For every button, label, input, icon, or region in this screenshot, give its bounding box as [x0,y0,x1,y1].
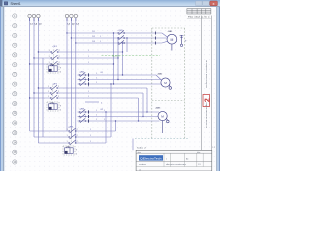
svg-text:1: 1 [67,141,68,143]
terminal L2 group1 [32,14,36,18]
wire rung2 right [58,57,119,59]
svg-text:1.2: 1.2 [212,147,215,149]
node row-14 [13,140,17,144]
wire rung4 right [57,87,147,89]
svg-text:1: 1 [104,110,105,112]
svg-text:1: 1 [100,41,101,43]
svg-text:1: 1 [90,141,91,143]
svg-text:1L3: 1L3 [92,41,95,43]
node row-15 [13,150,17,154]
svg-text:1/1: 1/1 [198,164,201,166]
dashed partition [152,100,185,102]
svg-text:9: 9 [60,68,61,70]
svg-text:5: 5 [60,110,61,112]
svg-text:1: 1 [48,86,49,88]
wire rung y131 right [76,130,116,132]
svg-text:-FR1: -FR1 [50,64,54,66]
earth symbol motor2 [169,87,172,90]
svg-text:-X1: -X1 [100,72,103,74]
svg-text:x: x [213,1,215,6]
wire vertical L1 [29,18,31,131]
node row-8 [13,82,17,86]
terminal L3 group2 [74,14,78,18]
svg-text:1: 1 [96,110,97,112]
svg-text:1: 1 [96,73,97,75]
wire drop b [117,38,119,80]
wire vertical L1b [66,18,68,131]
svg-text:1: 1 [96,82,97,84]
node row-4 [13,43,17,47]
svg-text:autor: autor [139,163,147,166]
svg-text:1: 1 [96,78,97,80]
svg-text:QElectroTech: QElectroTech [140,157,162,161]
contactor QM1 [119,30,125,34]
wire motor3 tail [162,121,164,133]
svg-text:1: 1 [48,96,49,98]
svg-text:1: 1 [166,159,167,161]
node row-10 [13,102,17,106]
window icon [4,2,7,5]
node row-9 [13,92,17,96]
svg-text:M: M [170,38,173,42]
terminal L1 group2 [65,14,69,18]
wire stub [85,101,99,103]
wire rung3 right [58,63,114,65]
node row-13 [13,131,17,135]
svg-text:1: 1 [104,119,105,121]
svg-text:1: 1 [48,91,49,93]
wire vertical L2 [33,18,35,137]
thermal relay FR1 [47,64,59,73]
wire motor2 row1 [78,74,157,76]
wire drop to title block [132,139,134,151]
svg-text:5: 5 [60,72,61,74]
terminal L2 group2 [70,14,74,18]
svg-text:9: 9 [60,106,61,108]
thermal relay FR2 [47,102,59,111]
svg-text:1: 1 [49,56,50,58]
wire rise b [110,84,112,137]
svg-text:1: 1 [100,36,101,38]
motor M1 [167,34,177,44]
wire rung y93 [34,92,51,94]
wire rise c [105,112,107,143]
wire converge m2 [156,75,161,80]
dashed enclosure box [152,27,185,29]
terminal L1 group1 [28,14,32,18]
svg-text:-QF1: -QF1 [52,46,58,48]
svg-text:1: 1 [88,62,89,64]
thermal relay FR3 [63,146,75,155]
svg-text:-MA3: -MA3 [155,107,161,110]
svg-text:-QF3: -QF3 [68,126,74,128]
svg-text:commande: commande [206,100,208,128]
wire rung y58 [34,57,52,59]
svg-text:1: 1 [96,119,97,121]
wire rung y88 [38,87,51,89]
wire vertical L3 [37,18,39,143]
dashed separator bottom [135,138,188,140]
red stamp [203,95,210,107]
wire motor3 row2 [78,116,159,118]
node row-7 [13,72,17,76]
svg-text:v1: v1 [139,169,141,171]
wire rung y137 [34,136,70,138]
svg-text:1L2: 1L2 [92,36,95,38]
wire rung y131 [30,130,70,132]
node row-1 [13,14,17,18]
svg-text:M: M [164,81,167,85]
svg-text:1: 1 [96,115,97,117]
svg-text:dessin moteurs: dessin moteurs [166,163,186,166]
wire rung y64 [30,63,52,65]
wire rung6 right [57,97,139,99]
svg-text:5: 5 [76,154,77,156]
wire converge bottom [162,41,168,43]
title block [136,150,212,171]
wire motor1 tail [171,44,173,50]
wire drop e [142,93,144,117]
wire rung y143 [38,142,69,144]
terminal ticks motor3 [88,110,90,113]
motor M3 [158,111,167,120]
wire drop d [146,88,148,112]
wire bus W1 [76,42,162,44]
window title bar [0,0,220,7]
wire rung1 right [58,51,123,53]
svg-text:1: 1 [90,135,91,137]
svg-text:1: 1 [88,91,89,93]
svg-text:No dat a b c: No dat a b c [188,16,210,19]
wire drop f [138,98,140,121]
svg-text:M: M [161,115,164,119]
wire rung y143 right [76,142,107,144]
min/max buttons [196,1,203,6]
node row-3 [13,33,17,37]
wire vertical L2b [70,18,72,137]
wire motor3 row1 [78,111,160,113]
wire rung5 right [57,92,143,94]
svg-text:1L1: 1L1 [92,31,95,33]
wire rung y52 [38,51,51,53]
wire bus V1 [71,37,167,39]
wire converge top [162,33,168,37]
svg-text:1: 1 [67,129,68,131]
svg-text:date: date [138,151,142,154]
svg-text:-FR2: -FR2 [50,102,54,104]
node row-6 [13,63,17,67]
wire rise a [115,121,117,131]
wire motor2 row2 [78,79,161,81]
wire vertical L3b [75,18,77,143]
svg-text:A4: A4 [186,158,188,161]
earth symbol motor1 [181,35,183,44]
node row-5 [13,53,17,57]
svg-text:9: 9 [76,150,77,152]
wire bus U1 [67,32,162,34]
selection highlight [139,155,163,160]
close button [210,1,218,6]
svg-text:-QM1: -QM1 [118,30,124,32]
motor M2 [161,78,170,87]
node row-2 [13,24,17,28]
svg-text:2: 2 [204,98,211,102]
svg-text:schema moteur: schema moteur [205,60,208,88]
svg-text:1: 1 [88,96,89,98]
terminal L3 group1 [37,14,41,18]
svg-text:1: 1 [88,50,89,52]
wire motor3 row3 [78,120,160,122]
wire vertical N [42,58,44,137]
wire rung y98 [30,97,51,99]
wire drop c [122,43,124,75]
svg-text:-MA1: -MA1 [168,30,174,33]
svg-text:4: 4 [101,103,102,105]
terminal ticks motor2 [88,73,90,76]
earth symbol motor3 [167,120,170,123]
wire drop a [113,33,115,84]
svg-text:34-2x1.5: 34-2x1.5 [112,55,119,57]
summary table [187,9,211,14]
window left frame [0,7,1,171]
node row-11 [13,111,17,115]
svg-text:1: 1 [88,86,89,88]
wire rung y137 right [76,136,112,138]
svg-text:folio: folio [197,152,200,154]
right frame strip [201,16,203,151]
svg-text:1: 1 [90,129,91,131]
svg-text:Sheet1: Sheet1 [11,2,21,6]
node row-12 [13,121,17,125]
svg-text:-FR3: -FR3 [66,146,70,148]
green dashed link [102,55,161,57]
svg-text:1: 1 [49,50,50,52]
svg-text:1: 1 [67,135,68,137]
wire drop g [126,38,128,52]
node row-16 [13,160,17,164]
wire motor2 row3 [78,83,162,85]
svg-text:-MA2: -MA2 [157,73,163,76]
svg-text:1: 1 [88,56,89,58]
window right frame [215,7,218,171]
svg-text:folio 2: folio 2 [137,147,147,149]
svg-text:-X2: -X2 [100,109,103,111]
